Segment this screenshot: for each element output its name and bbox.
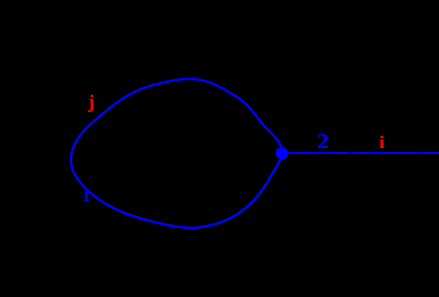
- arrow dot in gap: [350, 152, 352, 154]
- label j: [88, 92, 94, 114]
- label 1: [82, 188, 90, 206]
- label i: [379, 132, 385, 153]
- vertex 2 dot: [276, 147, 289, 160]
- notch in line: [420, 151, 422, 154]
- label 2: [317, 129, 329, 154]
- external line i segment 2: [352, 152, 439, 154]
- loop edge j: [71, 79, 282, 228]
- external line i segment 1: [282, 152, 349, 154]
